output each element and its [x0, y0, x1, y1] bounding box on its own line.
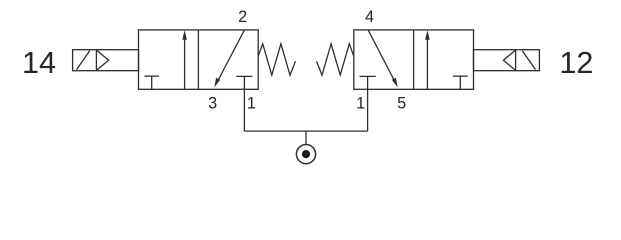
V2 blocked port symbol (left square, port 1) — [360, 76, 376, 89]
valve V1 position divider — [197, 30, 199, 89]
valve V1 body (left 3/2 valve) — [139, 30, 259, 89]
return spring (left valve) — [258, 44, 295, 75]
svg-text:2: 2 — [238, 8, 247, 26]
svg-text:14: 14 — [22, 46, 56, 80]
svg-text:1: 1 — [356, 94, 365, 112]
V1 blocked port symbol (left square, port 3) — [144, 76, 159, 89]
pressure source symbol (center dot) — [302, 150, 310, 158]
return spring (right valve) — [317, 44, 354, 75]
V2 exhaust path arrow 4-5 (left square) — [368, 30, 398, 87]
pressure source symbol (circle) — [296, 145, 315, 164]
wire stub to pressure source — [305, 131, 307, 144]
V2 flow path arrow 1-4 (right square) — [425, 30, 430, 89]
V1 flow path arrow 1-2 (left square) — [182, 30, 187, 89]
solenoid coil divider (right) — [515, 50, 517, 71]
svg-text:4: 4 — [365, 8, 374, 26]
wire from port 1 of V2 down — [367, 89, 369, 131]
svg-text:5: 5 — [397, 94, 406, 112]
solenoid pilot actuator 12 box — [474, 50, 540, 71]
V1 exhaust path arrow 2-3 (right square) — [214, 30, 244, 87]
svg-text:1: 1 — [247, 94, 256, 112]
svg-text:3: 3 — [208, 94, 217, 112]
solenoid coil slash — [77, 51, 90, 70]
wire from port 1 of V1 down — [243, 89, 245, 131]
valve V2 position divider — [413, 30, 415, 89]
solenoid coil slash (right) — [522, 51, 535, 70]
V1 blocked port symbol (right square, port 1) — [236, 76, 252, 89]
pilot triangle (right actuator) — [503, 50, 515, 70]
solenoid coil divider — [95, 50, 97, 71]
manifold wire joining both port 1 lines — [244, 130, 367, 132]
solenoid pilot actuator 14 box — [73, 50, 139, 71]
svg-text:12: 12 — [559, 46, 593, 80]
pilot triangle (left actuator) — [97, 50, 109, 70]
V2 blocked port symbol (right square, port 5) — [453, 76, 468, 89]
valve V2 body (right 3/2 valve) — [354, 30, 474, 89]
